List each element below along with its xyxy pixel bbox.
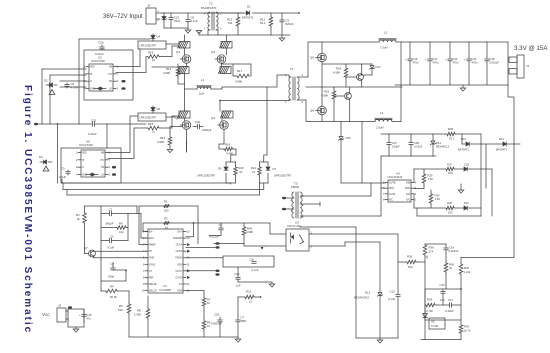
svg-text:EA−: EA− [149,231,154,234]
svg-text:TL431: TL431 [431,324,439,328]
svg-text:+: + [425,57,427,61]
capacitor C8 [66,83,68,84]
svg-text:PGND: PGND [175,258,182,260]
svg-text:C9: C9 [61,167,65,171]
svg-text:+: + [445,57,447,61]
zener D3 [43,160,46,164]
test point TP row [215,242,219,245]
svg-text:P8026: P8026 [291,185,300,189]
svg-text:INB: INB [406,183,410,185]
svg-text:BAT54T1: BAT54T1 [242,16,254,20]
diode pair D10 [97,87,104,91]
ground under C5 [281,35,283,38]
svg-text:0.33uF: 0.33uF [445,309,454,313]
wire driver box top rail [381,133,446,135]
svg-text:+: + [405,57,407,61]
svg-text:100: 100 [448,211,453,215]
wire fb left rail [424,256,426,311]
svg-text:GND: GND [149,258,154,260]
svg-text:10: 10 [207,301,211,305]
svg-text:D12: D12 [365,291,371,295]
svg-text:D2: D2 [44,79,48,83]
wire U2 inner box [84,50,133,100]
svg-text:C13: C13 [390,290,396,294]
capacitor C23 output [449,42,451,58]
test point U5 pin5 [112,173,116,176]
svg-text:UCC27300: UCC27300 [91,59,105,63]
zener D16 [340,122,342,137]
svg-text:VDD: VDD [90,67,95,69]
svg-text:C28: C28 [414,141,419,145]
wire ADS to R7 [186,290,204,292]
wire secondary top rail [308,42,379,77]
svg-text:OUTB: OUTB [176,251,183,253]
svg-text:C29: C29 [235,272,240,276]
wire bottom ground rail [129,336,238,338]
wire driver to upper gate xfmr [116,49,140,67]
wire bridge mid node [184,74,186,90]
wire comp verticals [100,206,102,260]
transistor Q7 [89,250,96,257]
svg-text:36V–72V Input: 36V–72V Input [103,14,143,20]
wire opto to fb [344,242,346,246]
svg-text:BZX84C8V2: BZX84C8V2 [354,296,369,300]
resistor R45 [445,253,447,262]
svg-text:4.99K: 4.99K [235,80,242,84]
ground bias [75,327,77,329]
transformer gate T6 hatched [179,67,189,74]
svg-text:274: 274 [429,250,434,254]
wire R2 feed [143,223,163,232]
wire bottom rail under T2 [199,34,290,36]
svg-text:2.43K: 2.43K [134,313,141,317]
svg-text:C18: C18 [464,163,469,167]
svg-text:C26: C26 [98,41,104,45]
capacitor C17 output [429,42,431,58]
resistor R13 [237,13,239,16]
svg-text:CS: CS [179,284,183,286]
svg-text:UCC374243: UCC374243 [388,175,403,179]
warning triangle D3 [43,166,49,171]
svg-text:OUTA: OUTA [389,193,396,196]
diode D9 input [163,13,165,16]
wire strip feeds [186,140,188,152]
svg-text:UCC27300: UCC27300 [79,143,93,147]
zener D12 [379,242,381,292]
svg-text:0.22uF: 0.22uF [88,132,97,136]
svg-text:UPR1GE5/TR7: UPR1GE5/TR7 [274,175,292,178]
svg-text:33uF: 33uF [174,19,181,23]
test point T3 pin2 [282,197,286,200]
wire comp box top [85,205,138,207]
svg-text:1uH: 1uH [199,92,204,96]
svg-text:BZX84C13: BZX84C13 [436,144,450,148]
svg-text:0.0015uF: 0.0015uF [211,322,222,326]
svg-text:HI: HI [82,160,85,162]
capacitor C13 [397,262,399,294]
svg-text:51.1: 51.1 [449,137,455,141]
wire C20 loop [223,256,274,267]
svg-text:4.99K: 4.99K [157,140,164,144]
svg-text:HS: HS [109,81,113,83]
svg-text:D3: D3 [39,155,43,159]
svg-text:HB: HB [109,67,113,69]
resistor R15 [170,127,182,133]
wire T2 pins [206,12,210,14]
zener D17 [371,64,373,65]
wire output right edge [507,42,509,85]
wire U5 outer box [61,148,121,183]
connector J3 input [146,8,156,24]
diode D11 [464,206,467,210]
wire strip bottom to bundle [259,183,261,195]
svg-text:D4: D4 [157,35,161,39]
wire ct line [93,257,148,259]
capacitor C27 [388,134,390,142]
svg-text:N/C: N/C [406,200,410,202]
svg-text:LPR1GE5/TR7: LPR1GE5/TR7 [140,117,157,120]
svg-text:60.5k: 60.5k [110,295,117,299]
transformer gate T9 hatched [222,111,233,118]
svg-text:HI: HI [90,74,93,76]
svg-text:LPR1GE5/TR7: LPR1GE5/TR7 [140,45,157,48]
wire C4 loop [100,260,102,281]
wire secondary mid rail [306,86,402,88]
svg-text:J1: J1 [526,64,530,68]
svg-text:C10: C10 [440,283,446,287]
test point OUTA [187,243,190,246]
capacitor C25 [219,317,221,320]
svg-text:0.001uF: 0.001uF [489,60,499,64]
connector J1 output [517,55,524,78]
svg-text:U3: U3 [295,221,299,225]
svg-text:0.1uF: 0.1uF [107,246,114,250]
wire U2 outer loop [79,38,150,40]
wire nested right verticals [480,144,482,216]
svg-text:C23: C23 [453,57,458,61]
resistor R34 [460,289,462,324]
svg-text:D16: D16 [346,136,352,140]
svg-text:10.7k: 10.7k [464,329,471,333]
wire T3 to U4 [370,183,372,196]
svg-text:820pF: 820pF [286,22,294,26]
svg-text:1.5K: 1.5K [435,197,441,201]
wire U4 vdd [380,156,382,216]
svg-text:3.3V @ 15A: 3.3V @ 15A [514,45,548,52]
svg-text:T1: T1 [290,67,294,71]
wire bridge legs [184,89,186,111]
test point OUTC [187,269,190,272]
test point T3 pin1 [282,208,286,211]
zener D13 [432,134,434,141]
svg-text:D11: D11 [464,201,469,205]
wire long vertical [355,227,357,338]
svg-text:21: 21 [152,58,156,62]
resistor R17 [222,63,252,76]
svg-text:D13: D13 [436,141,441,145]
svg-text:R1: R1 [164,200,168,204]
wire output bottom rail [395,84,508,86]
svg-text:21: 21 [252,170,255,174]
svg-text:C11: C11 [448,298,453,302]
svg-text:L1: L1 [201,78,205,82]
ground main [237,337,239,339]
wire R1 feed [139,206,163,245]
svg-text:CNY17-25w: CNY17-25w [287,224,302,228]
svg-text:EAO: EAO [149,237,154,240]
svg-text:C15: C15 [87,313,92,317]
svg-text:D17: D17 [376,65,382,69]
shunt U6 TL431 [424,311,426,314]
svg-text:LO: LO [109,89,112,91]
ground fb [379,338,381,340]
capacitor C9 [67,170,69,171]
svg-text:DELAB: DELAB [149,283,157,286]
diode D5 [152,106,154,107]
svg-text:0.1uF: 0.1uF [388,297,395,301]
wire secondary low rail [306,100,375,122]
svg-text:4.99K: 4.99K [321,94,328,98]
wire opto pins [281,233,286,235]
svg-text:PA1005-870: PA1005-870 [201,6,217,10]
transistor Q9 [345,93,352,100]
svg-text:HO: HO [109,74,113,76]
transformer gate T7 hatched [220,67,231,74]
svg-text:0.022uF: 0.022uF [449,249,459,253]
svg-text:R29: R29 [428,174,433,178]
svg-text:Q1: Q1 [176,50,180,54]
diode D18 [464,167,467,171]
svg-text:100pF: 100pF [392,144,400,148]
svg-text:R4: R4 [110,285,114,289]
wire Q8 top [322,63,362,65]
connector J2 bias [57,308,66,322]
svg-text:C4: C4 [111,262,115,266]
resistor R29 [423,169,425,173]
diode D4 [152,34,154,35]
svg-text:21: 21 [152,130,156,134]
svg-text:1uF: 1uF [440,298,445,302]
wire U1 vdd to C20 [186,257,223,259]
svg-text:R20: R20 [239,166,244,170]
svg-text:BAT54T1: BAT54T1 [458,148,470,152]
svg-text:4.99K: 4.99K [163,71,170,75]
svg-text:47u: 47u [87,316,92,320]
capacitor C16 output [409,42,411,58]
svg-text:21: 21 [249,300,253,304]
svg-text:C27: C27 [392,141,397,145]
capacitor C22 [170,13,172,17]
resistor R32 [460,258,462,264]
wire driver to lower gate xfmr [108,116,138,153]
svg-text:C20: C20 [249,258,254,262]
svg-text:+: + [464,57,466,61]
wire diode row [480,134,482,144]
svg-text:C14: C14 [449,246,454,250]
ground U4 gnd pin [414,188,424,190]
wire bias box [68,309,84,327]
wire comp to rail [128,291,130,303]
resistor R8 [147,296,149,308]
svg-text:R28: R28 [447,201,452,205]
svg-text:C17: C17 [433,57,438,61]
svg-text:R18: R18 [148,122,154,126]
resistor R30 [430,190,432,193]
wire U2 left feeds [42,68,86,70]
resistor R5 [127,303,131,314]
wire input cap return [164,27,188,29]
wire L1 to T1 primary [211,88,222,90]
svg-text:1.21k: 1.21k [464,270,471,274]
svg-text:470u: 470u [453,60,459,64]
svg-text:C25: C25 [214,313,220,317]
capacitor C24 output [468,42,470,58]
wire fb drop x398 [397,234,399,262]
wire mid bus [34,123,38,126]
svg-text:510: 510 [408,265,413,269]
resistor R6 [203,317,205,320]
svg-text:2.5uH: 2.5uH [376,126,383,130]
svg-text:Q5: Q5 [310,56,314,60]
resistor R21 [258,166,262,176]
warning triangle D2 [49,90,55,95]
wire bracket2 stub [263,183,265,190]
svg-text:L3: L3 [380,111,384,115]
svg-text:7.5uH: 7.5uH [380,46,387,50]
svg-text:54.1: 54.1 [260,21,266,25]
wire R27 row [414,168,445,170]
op-amp U1 UCC3895 controller [148,229,183,293]
svg-text:UPR11GE5/TR7: UPR11GE5/TR7 [197,175,216,178]
resistor R14 [177,64,179,67]
svg-text:Vcc: Vcc [42,312,50,317]
svg-text:C2: C2 [109,208,113,212]
svg-text:R39: R39 [448,127,454,131]
svg-text:4.99K: 4.99K [246,230,253,234]
svg-text:U6: U6 [431,320,435,324]
diode D6 [224,167,228,170]
svg-text:HS: HS [101,167,105,169]
wire Q2 to strip [186,140,188,152]
test point OUTD [187,276,190,279]
wire R22 column [237,297,239,317]
svg-text:+: + [166,16,168,20]
svg-text:C3: C3 [110,235,114,239]
svg-text:511: 511 [228,21,233,25]
svg-text:RAMP: RAMP [149,244,156,247]
wire comp box left [84,206,86,212]
svg-text:Q7: Q7 [84,246,88,250]
svg-text:Figure 1. UCC3985EVM-001 Schem: Figure 1. UCC3985EVM-001 Schematic [22,85,33,334]
svg-text:330p: 330p [108,275,115,279]
wire L3 up to output [400,42,402,122]
svg-text:INA: INA [406,193,410,196]
wire R2 to EA+ [143,231,148,233]
test point U5 pin6 [112,166,116,169]
resistor R24 [345,64,347,67]
transformer gate T8 hatched [179,111,190,118]
svg-text:R30: R30 [435,194,440,198]
svg-text:2200pF: 2200pF [202,128,212,132]
capacitor C7 [237,317,239,320]
svg-text:D6: D6 [218,167,222,171]
capacitor C28 [410,134,412,142]
test point U2 pin5 [121,87,125,90]
resistor R20 [234,166,238,176]
test points lower [215,270,219,273]
svg-text:OUTD: OUTD [175,277,182,279]
svg-text:GND: GND [405,188,410,190]
wire Q7 to U1 [93,250,148,252]
transformer gate T5 hatched [221,42,232,49]
svg-text:100: 100 [448,171,453,175]
svg-text:470u: 470u [472,60,478,64]
svg-text:R27: R27 [447,163,452,167]
svg-text:D14: D14 [499,137,504,141]
wire bridge top feeds [184,35,186,42]
capacitor C6 [187,13,189,19]
wire fb bottom rail [421,339,461,341]
resistor R38 [423,244,427,256]
svg-text:4.7uF: 4.7uF [71,85,78,89]
resistor R12 [270,13,272,16]
svg-text:Q3: Q3 [211,50,215,54]
svg-text:ADS: ADS [177,290,182,293]
svg-text:VDD: VDD [177,264,182,266]
svg-text:R22: R22 [246,290,252,294]
svg-text:L2: L2 [384,31,388,35]
wire C21 drop [106,124,108,148]
wire T3 secondary [300,195,371,197]
resistor R7 [203,293,205,297]
test point U2 pin6 [121,80,125,83]
wire output bundle left [62,182,231,184]
svg-text:R36: R36 [407,255,413,259]
wire box bottom [417,215,481,217]
svg-text:HO: HO [101,160,105,162]
ground output [462,85,464,88]
wire input rail [163,12,246,14]
capacitor C15 [82,314,86,316]
svg-text:C18: C18 [490,57,495,61]
svg-text:1.5K: 1.5K [428,177,434,181]
svg-text:TBD: TBD [241,319,247,323]
svg-text:REF: REF [149,277,154,279]
svg-text:R33: R33 [427,298,433,302]
zener D2 [41,69,43,124]
svg-text:1uF: 1uF [236,284,241,288]
wire aux vertical [361,122,363,184]
svg-text:R2: R2 [164,217,168,221]
svg-text:UCC3895: UCC3895 [159,288,171,292]
svg-text:U1: U1 [163,284,167,288]
wire T1 primary bottom [220,100,289,102]
ground input caps [187,28,189,30]
diode pair D15 [89,173,96,177]
capacitor C18 output [486,42,488,58]
svg-text:0.1uF: 0.1uF [252,268,259,272]
svg-text:0.1uF: 0.1uF [59,175,66,179]
resistor R25 [333,87,335,90]
svg-text:10k: 10k [119,230,124,234]
capacitor C5 [281,13,283,20]
wire fb mid row [425,288,461,290]
svg-text:Q6: Q6 [310,109,314,113]
wire left bus down [57,124,59,183]
svg-text:20: 20 [449,266,452,270]
wire fb gnd rail [356,337,398,339]
capacitor C30 [193,126,197,128]
